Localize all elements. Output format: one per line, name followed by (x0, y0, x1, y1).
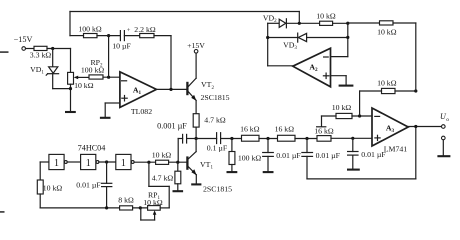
svg-text:10 kΩ: 10 kΩ (316, 11, 336, 20)
wire (322, 115, 337, 117)
wire (298, 12, 300, 24)
node A (51, 47, 54, 50)
wire (195, 175, 197, 184)
terminal lower (442, 136, 446, 140)
wire (442, 140, 444, 156)
resistor 2.2k (134, 25, 156, 38)
wire (169, 161, 187, 163)
resistor 16k third (314, 127, 334, 142)
wire (39, 194, 41, 208)
svg-text:16 kΩ: 16 kΩ (275, 125, 295, 134)
wire (395, 90, 416, 92)
wire (70, 35, 84, 37)
wire (70, 49, 72, 73)
wire (148, 162, 150, 186)
svg-text:0.001 µF: 0.001 µF (157, 122, 187, 131)
inverter U3 (116, 154, 134, 169)
wire (67, 161, 80, 163)
node M (414, 125, 417, 128)
resistor 10k base (152, 151, 172, 165)
wire (97, 35, 120, 37)
inverter U1 (49, 154, 67, 169)
node U (139, 206, 142, 209)
svg-text:100 kΩ: 100 kΩ (78, 25, 102, 34)
svg-text:0.1 µF: 0.1 µF (207, 143, 228, 152)
svg-text:4.7 kΩ: 4.7 kΩ (204, 116, 226, 125)
wire (40, 207, 119, 209)
capacitor 0.1uF (207, 133, 228, 153)
svg-text:10 kΩ: 10 kΩ (377, 78, 397, 87)
svg-text:16 kΩ: 16 kΩ (314, 127, 334, 136)
wire (53, 88, 71, 90)
transistor VT2 (187, 78, 229, 102)
wire (70, 84, 72, 111)
resistor 10k A3 feedback (377, 78, 397, 93)
terminal -15V (14, 35, 33, 51)
svg-text:0.01 µF: 0.01 µF (276, 151, 301, 160)
svg-text:10 kΩ: 10 kΩ (43, 184, 63, 193)
svg-text:2SC1815: 2SC1815 (203, 185, 232, 194)
node R (105, 160, 108, 163)
ground (437, 155, 450, 157)
resistor 10k top right (377, 21, 397, 37)
svg-text:16 kΩ: 16 kΩ (240, 125, 260, 134)
resistor 100k feedback (78, 25, 102, 38)
wire (195, 53, 197, 78)
svg-text:0.01 µF: 0.01 µF (76, 181, 101, 190)
svg-text:−15V: −15V (14, 35, 33, 44)
svg-text:10 kΩ: 10 kΩ (377, 27, 397, 36)
wire (177, 139, 179, 163)
capacitor 0.01uF second (302, 139, 341, 161)
svg-text:1: 1 (86, 158, 91, 169)
wire (39, 162, 41, 180)
wire (195, 100, 197, 113)
op-amp A1 (120, 72, 156, 116)
diode VD2 (263, 14, 286, 28)
capacitor 10uF (112, 27, 131, 51)
wire (408, 126, 441, 128)
diode VD3 (268, 33, 307, 51)
svg-text:10 kΩ: 10 kΩ (152, 151, 172, 160)
node D (107, 34, 110, 37)
svg-text:10 kΩ: 10 kΩ (332, 103, 352, 112)
capacitor 0.01uF first (263, 139, 302, 161)
node H (266, 137, 269, 140)
wire (331, 75, 347, 77)
wire (168, 186, 170, 208)
node F (195, 137, 198, 140)
wire (359, 91, 361, 116)
ground (227, 171, 238, 173)
capacitor 0.01uF third (348, 138, 387, 159)
wire (195, 127, 197, 138)
node Q (346, 36, 349, 39)
wire (104, 103, 106, 117)
wire (26, 48, 35, 50)
wire (331, 137, 372, 139)
node K (358, 114, 361, 117)
svg-text:74HC04: 74HC04 (78, 143, 106, 152)
capacitor 0.01uF osc (76, 162, 112, 190)
node I (305, 137, 308, 140)
potentiometer RP2 100k (81, 58, 105, 79)
wire (415, 127, 417, 179)
wire (160, 207, 169, 209)
wire (177, 184, 179, 191)
node S (147, 161, 150, 164)
capacitor tap (317, 116, 326, 127)
svg-text:4.7 kΩ: 4.7 kΩ (152, 173, 174, 182)
wire (154, 35, 171, 37)
wire (231, 165, 233, 172)
svg-text:10 kΩ: 10 kΩ (74, 81, 94, 90)
wire (69, 12, 71, 36)
wire (195, 139, 197, 152)
wire (105, 102, 120, 104)
ground (173, 190, 184, 192)
wire (345, 76, 347, 85)
wire (124, 35, 139, 37)
wire (99, 161, 116, 163)
wire (306, 156, 308, 179)
wire (52, 74, 54, 89)
wire (333, 22, 348, 24)
ground (65, 111, 76, 113)
ground (263, 171, 274, 173)
capacitor 0.001uF (157, 122, 187, 143)
svg-text:LM741: LM741 (384, 145, 407, 154)
wire (40, 161, 49, 163)
svg-text:0.01 µF: 0.01 µF (316, 151, 341, 160)
svg-text:o: o (446, 117, 449, 123)
wire (134, 161, 156, 163)
wire (196, 138, 217, 140)
svg-text:100 kΩ: 100 kΩ (81, 66, 105, 75)
node J (351, 137, 354, 140)
wire (267, 156, 269, 171)
terminal Uo (440, 112, 449, 128)
node C (107, 76, 110, 79)
svg-text:0.01 µF: 0.01 µF (361, 150, 386, 159)
wire (352, 115, 372, 117)
node L (414, 89, 417, 92)
transistor VT1 (187, 152, 232, 194)
svg-text:10 µF: 10 µF (112, 42, 131, 51)
wire (149, 185, 169, 187)
resistor 10k left (37, 180, 62, 194)
wire (348, 22, 380, 24)
wire (103, 76, 120, 78)
svg-text:1: 1 (54, 158, 59, 169)
svg-text:8 kΩ: 8 kΩ (118, 195, 134, 204)
svg-text:2SC1815: 2SC1815 (200, 93, 229, 102)
wire (352, 155, 354, 169)
node N (298, 22, 301, 25)
wire (393, 22, 416, 24)
wire (259, 138, 278, 140)
ground (100, 117, 111, 119)
ground (191, 183, 201, 185)
inverter U2 (81, 154, 99, 169)
ground (347, 169, 360, 171)
ground (339, 85, 354, 87)
svg-text:2.2 kΩ: 2.2 kΩ (134, 25, 156, 34)
svg-text:1: 1 (121, 158, 126, 169)
wire (286, 22, 319, 24)
wire (170, 36, 172, 90)
svg-text:3.3 kΩ: 3.3 kΩ (30, 51, 52, 60)
wire (347, 23, 349, 56)
potentiometer 10k (68, 72, 94, 89)
wire (221, 138, 242, 140)
op-amp A2 (293, 48, 331, 87)
node G (230, 137, 233, 140)
svg-text:+: + (127, 27, 131, 34)
wire (47, 48, 71, 50)
zener diode VD1 (30, 65, 58, 76)
wire (268, 65, 293, 67)
wire (331, 56, 348, 58)
node B (69, 87, 72, 90)
node T (105, 206, 108, 209)
wire (70, 11, 299, 13)
terminal +15V (187, 41, 205, 53)
resistor 10k VD2 (316, 11, 336, 25)
op-amp A3 (372, 108, 408, 154)
wire (307, 178, 416, 180)
wire (295, 138, 317, 140)
node E (169, 88, 172, 91)
wire (178, 138, 182, 140)
resistor 16k second (275, 125, 295, 142)
wire (415, 23, 417, 91)
resistor 16k first (240, 125, 260, 142)
resistor 100k shunt (229, 139, 261, 165)
resistor 4.7k base (152, 162, 181, 184)
resistor 4.7k emitter (193, 114, 226, 127)
wire (156, 88, 186, 90)
potentiometer RP1 10k (141, 190, 163, 220)
edge artifact (0, 51, 9, 213)
wire (187, 138, 197, 140)
wire (267, 23, 269, 66)
wire (133, 207, 148, 209)
node P (266, 36, 269, 39)
node V (176, 161, 179, 164)
svg-text:TL082: TL082 (131, 107, 152, 116)
resistor 3.3k (30, 46, 52, 59)
svg-text:100 kΩ: 100 kΩ (238, 154, 262, 163)
svg-text:+15V: +15V (187, 41, 205, 50)
wire (52, 49, 54, 67)
wire (108, 36, 110, 78)
resistor 8k (118, 195, 134, 210)
wire (307, 37, 348, 39)
resistor 10k inverting input (332, 103, 352, 119)
node O (346, 22, 349, 25)
wire (360, 90, 382, 92)
wire (106, 187, 108, 208)
